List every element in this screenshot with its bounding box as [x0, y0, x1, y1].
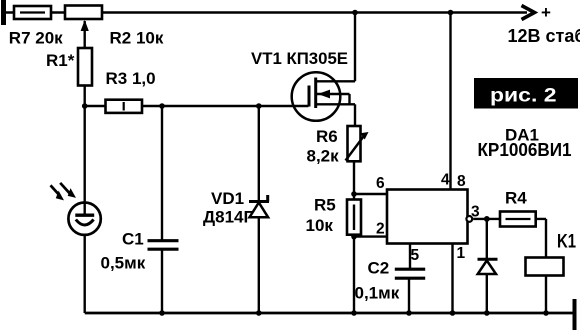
svg-text:3: 3: [471, 204, 480, 221]
svg-text:6: 6: [376, 175, 385, 192]
svg-text:КР1006ВИ1: КР1006ВИ1: [478, 140, 572, 160]
svg-text:R4: R4: [505, 189, 527, 208]
svg-text:0,1мк: 0,1мк: [355, 284, 400, 303]
svg-text:4: 4: [441, 171, 450, 188]
svg-text:5: 5: [411, 247, 420, 264]
svg-text:R3 1,0: R3 1,0: [106, 69, 156, 88]
svg-text:R7 20к: R7 20к: [9, 29, 63, 48]
svg-text:рис. 2: рис. 2: [490, 85, 557, 107]
svg-text:10к: 10к: [306, 216, 334, 235]
svg-text:Д814Г: Д814Г: [203, 208, 253, 227]
svg-text:VD1: VD1: [211, 189, 244, 208]
svg-text:VT1 КП305Е: VT1 КП305Е: [251, 49, 348, 68]
svg-text:1: 1: [457, 245, 466, 262]
svg-text:R6: R6: [316, 127, 338, 146]
svg-text:K1: K1: [557, 232, 576, 253]
svg-text:8,2к: 8,2к: [307, 147, 340, 166]
svg-text:C2: C2: [368, 259, 390, 278]
svg-text:R2 10к: R2 10к: [110, 29, 164, 48]
svg-text:C1: C1: [122, 230, 144, 249]
svg-text:R5: R5: [314, 196, 336, 215]
svg-text:8: 8: [457, 173, 466, 190]
svg-text:R1*: R1*: [46, 51, 75, 70]
svg-text:0,5мк: 0,5мк: [101, 254, 146, 273]
svg-text:2: 2: [376, 221, 385, 238]
svg-text:+: +: [541, 3, 551, 22]
svg-text:12В стаб: 12В стаб: [508, 26, 580, 46]
